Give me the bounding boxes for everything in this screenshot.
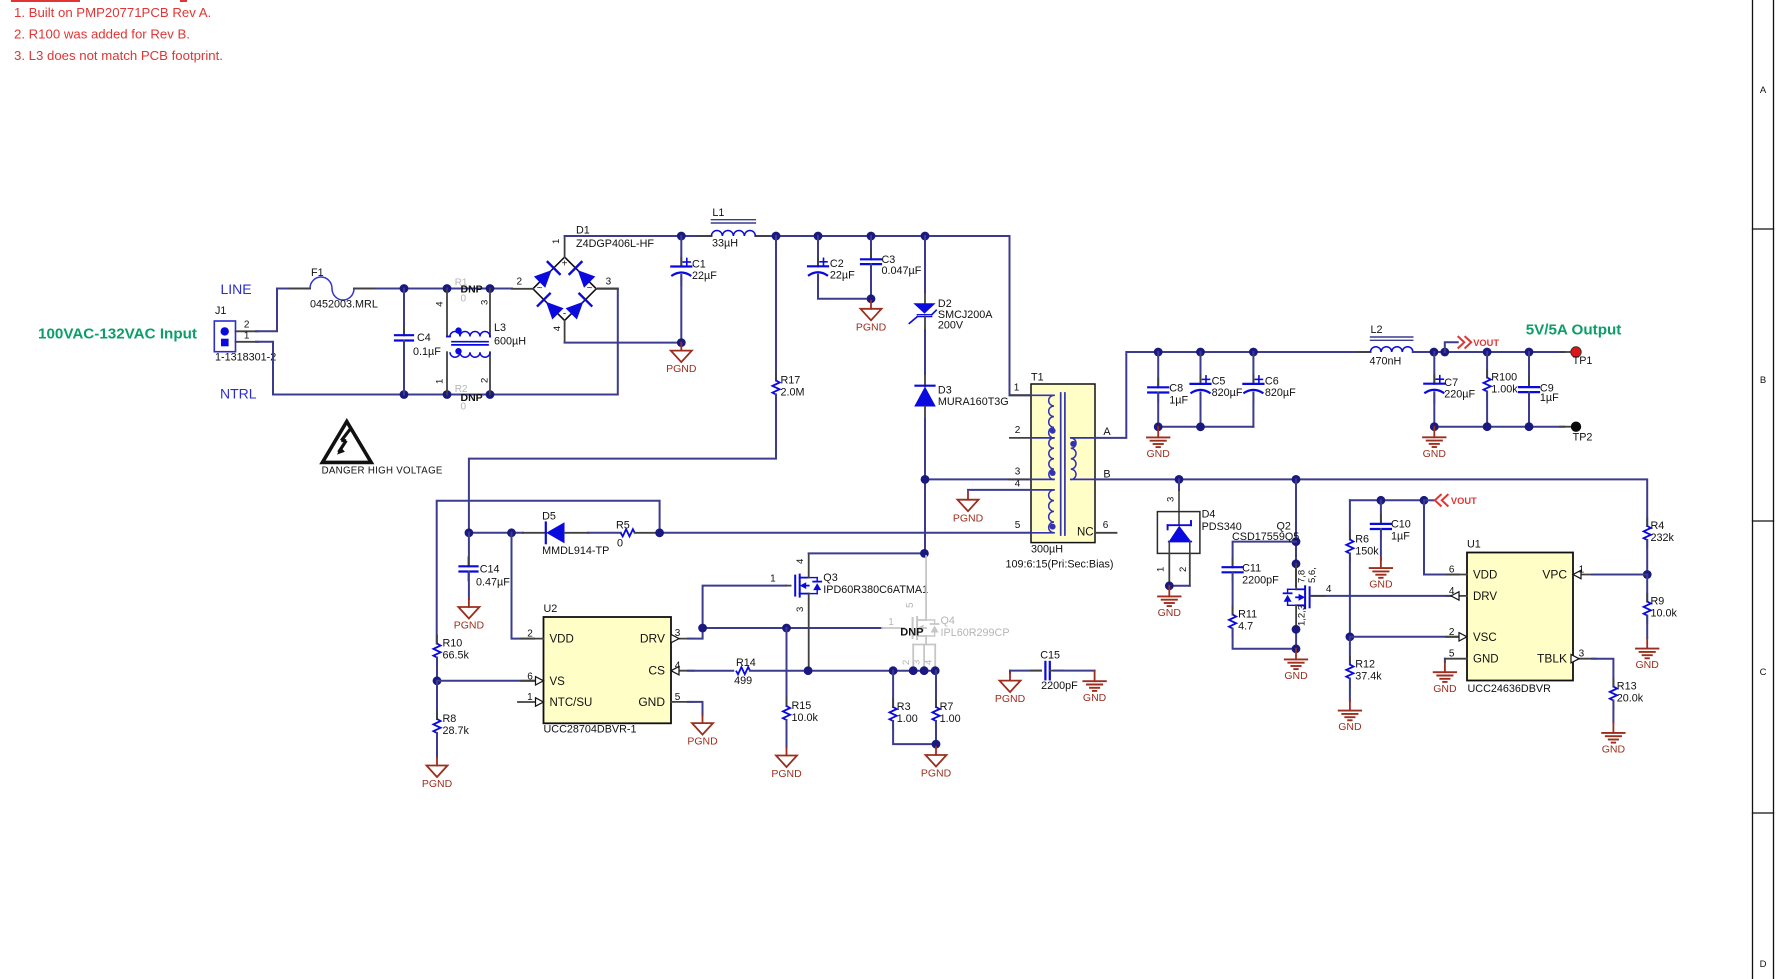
resistor R8 <box>436 681 438 719</box>
svg-text:3: 3 <box>1166 497 1177 502</box>
svg-text:PGND: PGND <box>666 363 697 375</box>
svg-text:1: 1 <box>1156 567 1167 572</box>
svg-text:PGND: PGND <box>921 768 952 780</box>
transistor Q3 <box>786 585 791 587</box>
svg-text:1: 1 <box>551 239 562 244</box>
svg-text:1: 1 <box>244 331 250 342</box>
svg-text:0.47µF: 0.47µF <box>476 577 510 589</box>
svg-text:GND: GND <box>1338 721 1362 733</box>
T1 pin stubs <box>1010 394 1032 396</box>
bridge diode upper-right <box>578 270 596 288</box>
capacitor C11 <box>1233 542 1296 568</box>
wire DRV to Q4 gate <box>703 627 882 629</box>
svg-text:R100: R100 <box>1491 372 1517 384</box>
bridge pin stubs <box>512 288 533 290</box>
wire aux tap loop to R10 <box>437 501 660 644</box>
svg-text:3: 3 <box>606 277 612 288</box>
svg-text:C2: C2 <box>830 258 844 270</box>
svg-text:R13: R13 <box>1617 681 1637 693</box>
svg-text:20.0k: 20.0k <box>1617 693 1644 705</box>
U1 pin VDD <box>1446 574 1467 576</box>
svg-text:R12: R12 <box>1355 659 1375 671</box>
bridge diode lower-left <box>546 302 564 320</box>
svg-text:5,6,: 5,6, <box>1307 567 1318 583</box>
T1 primary winding <box>1031 394 1054 396</box>
svg-text:GND: GND <box>1602 744 1626 756</box>
svg-text:+: + <box>562 259 568 270</box>
svg-text:Q4: Q4 <box>941 615 955 627</box>
resistor R10 <box>436 636 438 644</box>
svg-text:4: 4 <box>552 326 563 331</box>
power symbol PGND (R8) <box>436 758 438 766</box>
svg-text:28.7k: 28.7k <box>443 725 470 737</box>
svg-text:150k: 150k <box>1355 546 1379 558</box>
svg-text:TP2: TP2 <box>1573 431 1593 443</box>
svg-text:U1: U1 <box>1467 539 1481 551</box>
svg-text:MMDL914-TP: MMDL914-TP <box>542 545 609 557</box>
svg-text:J1: J1 <box>215 305 226 317</box>
svg-text:820µF: 820µF <box>1265 387 1296 399</box>
U2 pin VDD <box>521 638 544 640</box>
svg-text:1: 1 <box>888 617 894 628</box>
svg-text:4: 4 <box>675 660 681 671</box>
junction dots rail <box>677 232 686 241</box>
node VPC junction <box>1643 570 1652 579</box>
svg-text:R3: R3 <box>897 701 911 713</box>
svg-text:232k: 232k <box>1651 532 1675 544</box>
power symbol GND (R9) <box>1646 638 1648 649</box>
svg-text:GND: GND <box>1636 659 1660 671</box>
resistor R15 <box>786 628 788 706</box>
svg-text:-: - <box>563 309 566 320</box>
svg-text:5: 5 <box>905 602 916 608</box>
power flag VOUT (output) <box>1445 342 1458 352</box>
svg-text:200V: 200V <box>938 319 964 331</box>
svg-text:UCC28704DBVR-1: UCC28704DBVR-1 <box>544 724 637 736</box>
svg-text:0.1µF: 0.1µF <box>413 346 441 358</box>
svg-text:1: 1 <box>1014 382 1020 393</box>
svg-text:R15: R15 <box>792 700 812 712</box>
U1 pin GND <box>1445 658 1467 660</box>
wire DRV to Q3 gate <box>688 586 786 639</box>
Q3 drain lead <box>808 553 810 577</box>
svg-text:1µF: 1µF <box>1540 392 1559 404</box>
transistor Q4 (DNP) <box>925 556 927 620</box>
resistor R14 <box>736 667 750 674</box>
svg-text:C7: C7 <box>1444 377 1458 389</box>
svg-text:TBLK: TBLK <box>1537 652 1567 666</box>
capacitor C14 <box>468 533 470 567</box>
svg-text:5: 5 <box>1015 520 1021 531</box>
svg-text:VS: VS <box>550 676 566 688</box>
svg-text:100VAC-132VAC Input: 100VAC-132VAC Input <box>38 326 197 343</box>
svg-text:2.0M: 2.0M <box>781 387 805 399</box>
power symbol PGND (U2) <box>702 715 704 723</box>
svg-text:1.00: 1.00 <box>897 713 918 725</box>
svg-text:6: 6 <box>1103 520 1109 531</box>
power symbol PGND (C15) <box>1009 671 1011 673</box>
svg-text:TP1: TP1 <box>1573 355 1593 367</box>
svg-text:VDD: VDD <box>1473 570 1497 582</box>
resistor R12 <box>1349 637 1351 665</box>
svg-text:4.7: 4.7 <box>1238 621 1253 633</box>
svg-text:NTRL: NTRL <box>220 385 257 401</box>
wire J1.2 to LINE <box>256 289 277 332</box>
J1 pin 1 <box>236 341 259 343</box>
wire U1 GND <box>1444 659 1446 662</box>
test point TP2 <box>1560 426 1571 428</box>
diode D2 (TVS) <box>924 236 926 292</box>
svg-text:6: 6 <box>1449 565 1455 576</box>
resistor R4 <box>1646 518 1648 526</box>
capacitor C2 <box>817 236 819 266</box>
resistor R100 <box>1486 352 1488 378</box>
svg-text:U2: U2 <box>544 603 558 615</box>
svg-text:1: 1 <box>527 692 533 703</box>
diode D4 <box>1178 479 1180 490</box>
svg-text:1µF: 1µF <box>1169 394 1188 406</box>
capacitor C4 <box>403 289 405 336</box>
U2 pin GND <box>671 701 694 703</box>
U2 pin VS <box>521 680 544 682</box>
power symbol GND (U1) <box>1444 662 1446 673</box>
svg-text:820µF: 820µF <box>1212 387 1243 399</box>
wire aux row T1.5 to D5 <box>660 532 1031 534</box>
svg-text:R6: R6 <box>1355 534 1369 546</box>
svg-text:3: 3 <box>1579 649 1585 660</box>
U2 pin DRV <box>671 638 694 640</box>
svg-text:R10: R10 <box>443 638 463 650</box>
wire J1.1 to NTRL <box>256 342 273 395</box>
svg-text:PGND: PGND <box>454 620 485 632</box>
svg-text:3. L3 does not match PCB footp: 3. L3 does not match PCB footprint. <box>14 48 223 63</box>
svg-text:PGND: PGND <box>856 321 887 333</box>
wire VDD from aux <box>512 533 535 639</box>
inductor L3 bottom winding <box>446 352 448 394</box>
power symbol PGND (R15) <box>786 748 788 756</box>
svg-text:L2: L2 <box>1371 324 1383 336</box>
svg-text:C: C <box>1760 667 1767 678</box>
svg-text:GND: GND <box>1433 683 1457 695</box>
U1 pin VSC <box>1446 636 1467 638</box>
svg-text:3: 3 <box>480 300 491 305</box>
border frame <box>1752 0 1754 979</box>
capacitor C10 <box>1380 500 1382 524</box>
svg-text:GND: GND <box>1284 670 1308 682</box>
svg-text:IPL60R299CP: IPL60R299CP <box>941 627 1010 639</box>
svg-text:22µF: 22µF <box>830 269 855 281</box>
capacitor C15 <box>1010 670 1041 672</box>
svg-text:2: 2 <box>1178 567 1189 572</box>
power symbol PGND (C14) <box>468 599 470 607</box>
svg-text:C10: C10 <box>1391 518 1411 530</box>
power symbol PGND (C3) <box>870 301 872 309</box>
Q2 gate wire to U1 DRV <box>1311 595 1460 597</box>
svg-text:4: 4 <box>435 301 446 306</box>
resistor R9 <box>1646 575 1648 602</box>
transformer T1 <box>1031 384 1095 543</box>
svg-text:~: ~ <box>537 283 543 294</box>
svg-text:2200pF: 2200pF <box>1041 680 1078 692</box>
inductor L3 top winding <box>446 289 448 337</box>
svg-text:D: D <box>1760 959 1767 970</box>
svg-text:DNP: DNP <box>900 627 923 639</box>
svg-text:B: B <box>1760 375 1766 386</box>
svg-text:R14: R14 <box>736 657 756 669</box>
svg-text:10.0k: 10.0k <box>792 712 819 724</box>
wire VS to U2 <box>437 680 534 682</box>
svg-text:F1: F1 <box>311 267 324 279</box>
svg-text:GND: GND <box>1158 607 1182 619</box>
wire VOUT to U1 VDD <box>1424 500 1459 574</box>
svg-text:220µF: 220µF <box>1444 388 1475 400</box>
U1 pin TBLK <box>1573 658 1596 660</box>
power symbol GND (D4) <box>1168 586 1170 597</box>
wire VSC to U1 <box>1350 636 1459 638</box>
capacitor C3 <box>870 236 872 259</box>
svg-text:DRV: DRV <box>1473 591 1497 603</box>
svg-text:2: 2 <box>1015 425 1021 436</box>
capacitor C1 <box>680 236 682 267</box>
svg-text:Q3: Q3 <box>823 572 837 584</box>
svg-text:6: 6 <box>527 671 533 682</box>
node B junction at D3 <box>921 475 930 484</box>
svg-text:R7: R7 <box>940 701 954 713</box>
svg-text:5V/5A Output: 5V/5A Output <box>1526 322 1622 339</box>
resistor R13 <box>1592 659 1613 687</box>
inductor L3 core <box>452 341 488 343</box>
capacitor C6 <box>1252 352 1254 384</box>
U2 pin CS <box>671 670 694 672</box>
svg-text:NTC/SU: NTC/SU <box>550 697 593 709</box>
power symbol GND (C7) <box>1433 427 1435 438</box>
T1 core <box>1060 393 1062 535</box>
svg-text:1: 1 <box>770 573 776 584</box>
wire net A to output rail <box>1095 352 1371 438</box>
wire VPC <box>1592 574 1647 576</box>
svg-text:37.4k: 37.4k <box>1355 671 1382 683</box>
junction dots LINE <box>400 284 409 293</box>
svg-text:GND: GND <box>1147 448 1171 460</box>
svg-text:4: 4 <box>924 660 935 665</box>
U2 pin NTC/SU <box>518 701 544 703</box>
diode D3 <box>924 374 926 386</box>
svg-text:VDD: VDD <box>550 634 574 646</box>
D4 pins to GND <box>1168 553 1170 585</box>
svg-text:0: 0 <box>617 538 623 550</box>
capacitor C5 <box>1200 352 1202 384</box>
svg-text:0.047µF: 0.047µF <box>882 265 922 277</box>
svg-text:109:6:15(Pri:Sec:Bias): 109:6:15(Pri:Sec:Bias) <box>1006 559 1114 571</box>
svg-text:L1: L1 <box>712 207 724 219</box>
J1 pin 2 <box>236 330 259 332</box>
svg-text:C15: C15 <box>1040 650 1060 662</box>
wire Q2 drain <box>1295 479 1297 586</box>
svg-text:2: 2 <box>517 277 523 288</box>
wire L2 to VOUT rail <box>1413 351 1564 353</box>
svg-text:33µH: 33µH <box>712 238 738 250</box>
svg-text:300µH: 300µH <box>1031 544 1063 556</box>
svg-text:L3: L3 <box>494 322 506 334</box>
wire DC rail <box>565 235 712 237</box>
Q2 source to GND <box>1295 629 1297 649</box>
resistor R3 <box>892 671 894 707</box>
svg-text:PGND: PGND <box>422 778 453 790</box>
connector J1 <box>214 321 235 352</box>
svg-text:GND: GND <box>638 695 665 709</box>
resistor R5 <box>588 532 621 534</box>
T1 pin 4 to PGND <box>968 489 1031 491</box>
junction dots CS row <box>804 666 813 675</box>
capacitor C8 <box>1157 352 1159 387</box>
wire CS row <box>688 670 733 672</box>
resistor R11 <box>1232 607 1234 615</box>
transistor Q2 <box>1309 587 1311 607</box>
svg-text:C14: C14 <box>480 564 500 576</box>
svg-text:5: 5 <box>1449 649 1455 660</box>
capacitor C7 <box>1433 352 1435 384</box>
svg-text:PGND: PGND <box>995 693 1026 705</box>
svg-text:DANGER HIGH VOLTAGE: DANGER HIGH VOLTAGE <box>322 466 443 477</box>
resistor R6 <box>1349 500 1351 539</box>
svg-text:22µF: 22µF <box>692 270 717 282</box>
svg-text:2: 2 <box>244 320 250 331</box>
warning symbol danger high voltage <box>322 422 371 463</box>
svg-text:C8: C8 <box>1169 383 1183 395</box>
svg-text:0452003.MRL: 0452003.MRL <box>310 299 378 311</box>
resistor R17 <box>775 236 777 381</box>
node VSC junction <box>1346 632 1355 641</box>
svg-text:~: ~ <box>587 283 593 294</box>
svg-text:2: 2 <box>1449 627 1455 638</box>
U1 pin VPC <box>1573 574 1596 576</box>
svg-text:2. R100 was added for Rev B.: 2. R100 was added for Rev B. <box>14 27 190 42</box>
svg-text:1: 1 <box>1579 565 1585 576</box>
bridge diode lower-right <box>566 302 584 320</box>
svg-text:1.00k: 1.00k <box>1491 384 1518 396</box>
power symbol PGND (T1.4) <box>967 492 969 500</box>
svg-text:10.0k: 10.0k <box>1651 608 1678 620</box>
svg-text:D4: D4 <box>1202 509 1216 521</box>
U1 pin DRV <box>1446 595 1467 597</box>
svg-text:T1: T1 <box>1031 372 1044 384</box>
svg-text:1µF: 1µF <box>1391 530 1410 542</box>
IC U2 UCC28704 <box>544 617 672 723</box>
svg-text:3: 3 <box>795 607 806 612</box>
svg-text:CS: CS <box>648 664 665 678</box>
power symbol GND (R12) <box>1349 700 1351 711</box>
svg-text:1.00: 1.00 <box>940 713 961 725</box>
diode D5 <box>523 532 546 534</box>
svg-text:VPC: VPC <box>1542 568 1567 582</box>
node VS junction <box>433 676 442 685</box>
svg-text:499: 499 <box>734 675 752 687</box>
svg-text:A: A <box>1760 85 1767 96</box>
svg-text:R11: R11 <box>1238 609 1257 621</box>
svg-text:R8: R8 <box>443 713 457 725</box>
power symbol GND (C15) <box>1094 671 1096 682</box>
svg-text:NC: NC <box>1077 526 1094 538</box>
svg-text:MURA160T3G: MURA160T3G <box>938 396 1009 408</box>
svg-text:66.5k: 66.5k <box>443 650 470 662</box>
IC U1 UCC24636 <box>1467 553 1573 681</box>
svg-text:3: 3 <box>911 660 922 665</box>
junction dots output rail <box>1154 348 1163 357</box>
svg-text:B: B <box>1103 468 1110 480</box>
svg-text:1. Built on PMP20771PCB Rev A.: 1. Built on PMP20771PCB Rev A. <box>14 5 211 20</box>
wire net B <box>1095 479 1647 526</box>
svg-text:4: 4 <box>1326 584 1332 595</box>
svg-text:GND: GND <box>1083 692 1107 704</box>
Q3 source lead <box>808 594 810 671</box>
bridge diode upper-left <box>534 270 552 288</box>
svg-text:VOUT: VOUT <box>1473 338 1499 348</box>
power flag VOUT (U1 feed) <box>1350 499 1424 501</box>
power symbol GND (Q2) <box>1295 649 1297 660</box>
resistor R7 <box>935 671 937 707</box>
wire Q3 drain to T1.3 net <box>809 552 925 554</box>
T1 secondary winding <box>1071 437 1095 439</box>
T1 bias winding <box>1031 489 1054 491</box>
wire bridge neg to C1 <box>565 342 682 344</box>
svg-text:2: 2 <box>901 660 912 665</box>
svg-text:R17: R17 <box>781 375 801 387</box>
svg-text:PGND: PGND <box>953 512 984 524</box>
svg-text:3: 3 <box>675 628 681 639</box>
svg-text:1: 1 <box>435 379 446 384</box>
svg-text:R4: R4 <box>1651 520 1665 532</box>
note underline strip <box>11 0 80 2</box>
svg-text:600µH: 600µH <box>494 336 526 348</box>
power symbol PGND (C1) <box>680 343 682 351</box>
bridge rectifier D1 <box>533 257 596 320</box>
power symbol GND (C10) <box>1380 558 1382 569</box>
junction dots aux row <box>465 528 474 537</box>
svg-text:3: 3 <box>1015 467 1021 478</box>
svg-text:VOUT: VOUT <box>1451 496 1477 506</box>
svg-text:1,2,3: 1,2,3 <box>1297 605 1308 626</box>
svg-text:4: 4 <box>795 559 806 564</box>
svg-text:PGND: PGND <box>687 736 718 748</box>
svg-text:5: 5 <box>675 692 681 703</box>
wire output ground row <box>1434 426 1564 428</box>
svg-text:7,8: 7,8 <box>1297 570 1308 583</box>
svg-text:UCC24636DBVR: UCC24636DBVR <box>1468 683 1552 695</box>
svg-text:D1: D1 <box>576 225 590 237</box>
fuse F1 <box>290 288 310 290</box>
svg-text:DRV: DRV <box>640 632 665 646</box>
svg-text:GND: GND <box>1369 579 1393 591</box>
svg-text:GND: GND <box>1423 448 1447 460</box>
svg-text:Z4DGP406L-HF: Z4DGP406L-HF <box>576 238 654 250</box>
svg-text:0: 0 <box>461 401 467 412</box>
power symbol GND (R13) <box>1612 722 1614 733</box>
svg-text:C11: C11 <box>1242 563 1261 575</box>
svg-text:D5: D5 <box>542 511 556 523</box>
wire LINE row <box>277 288 310 290</box>
svg-text:C1: C1 <box>692 259 706 271</box>
capacitor C9 <box>1528 352 1530 387</box>
svg-text:470nH: 470nH <box>1370 356 1402 368</box>
svg-text:A: A <box>1103 426 1111 438</box>
svg-text:IPD60R380C6ATMA1: IPD60R380C6ATMA1 <box>823 584 928 596</box>
svg-text:LINE: LINE <box>221 281 252 297</box>
node DRV-R15 junction <box>782 624 791 633</box>
svg-text:4: 4 <box>1449 586 1455 597</box>
svg-text:VSC: VSC <box>1473 632 1497 644</box>
svg-text:R5: R5 <box>616 520 630 532</box>
svg-text:R9: R9 <box>1651 596 1665 608</box>
